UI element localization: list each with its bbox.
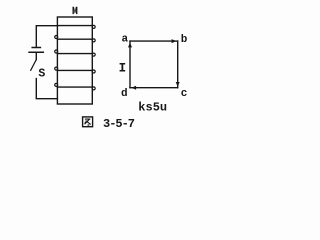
loop side b-c (right) [177, 41, 179, 88]
current arrow left toward d [131, 86, 136, 90]
coil winding line 4 left bump [55, 67, 58, 70]
coil winding line 3 left bump [55, 50, 58, 53]
loop side c-d (bottom) [130, 87, 178, 89]
svg-text:c: c [181, 88, 188, 100]
coil winding line 1 [57, 25, 92, 27]
coil M core outline [57, 17, 92, 104]
coil winding line 1 right bump [92, 25, 95, 28]
loop side d-a (left) [129, 41, 131, 88]
svg-text:ks5u: ks5u [138, 101, 167, 115]
coil winding line 5 [57, 86, 92, 88]
wire: battery to switch [35, 53, 37, 60]
svg-text:S: S [38, 67, 45, 80]
coil winding line 5 left bump [55, 83, 58, 86]
label M [73, 7, 78, 14]
battery negative plate (short) [32, 47, 40, 49]
wire bottom: switch to coil [36, 79, 57, 99]
svg-text:b: b [181, 34, 188, 46]
coil winding line 3 right bump [92, 53, 95, 56]
loop side a-b (top) [130, 40, 178, 42]
coil winding line 2 left bump [55, 36, 58, 39]
coil winding line 5 right bump [92, 87, 95, 90]
current arrow down toward c [176, 82, 180, 87]
coil winding line 3 [57, 53, 92, 55]
svg-text:I: I [119, 62, 127, 76]
coil winding line 2 right bump [92, 39, 95, 42]
svg-text:d: d [121, 88, 128, 100]
current arrow up toward a [128, 43, 132, 48]
coil winding line 4 [57, 69, 92, 71]
coil winding line 2 [57, 38, 92, 40]
current arrow right toward b [172, 39, 177, 43]
caption hanzi TU (figure) drawn as strokes [83, 117, 93, 127]
svg-text:3-5-7: 3-5-7 [103, 117, 135, 131]
switch S blade (open) [31, 60, 36, 70]
wire top: coil to battery [36, 26, 57, 47]
battery positive plate (long) [29, 51, 43, 53]
coil winding line 4 right bump [92, 70, 95, 73]
svg-text:a: a [122, 33, 129, 45]
